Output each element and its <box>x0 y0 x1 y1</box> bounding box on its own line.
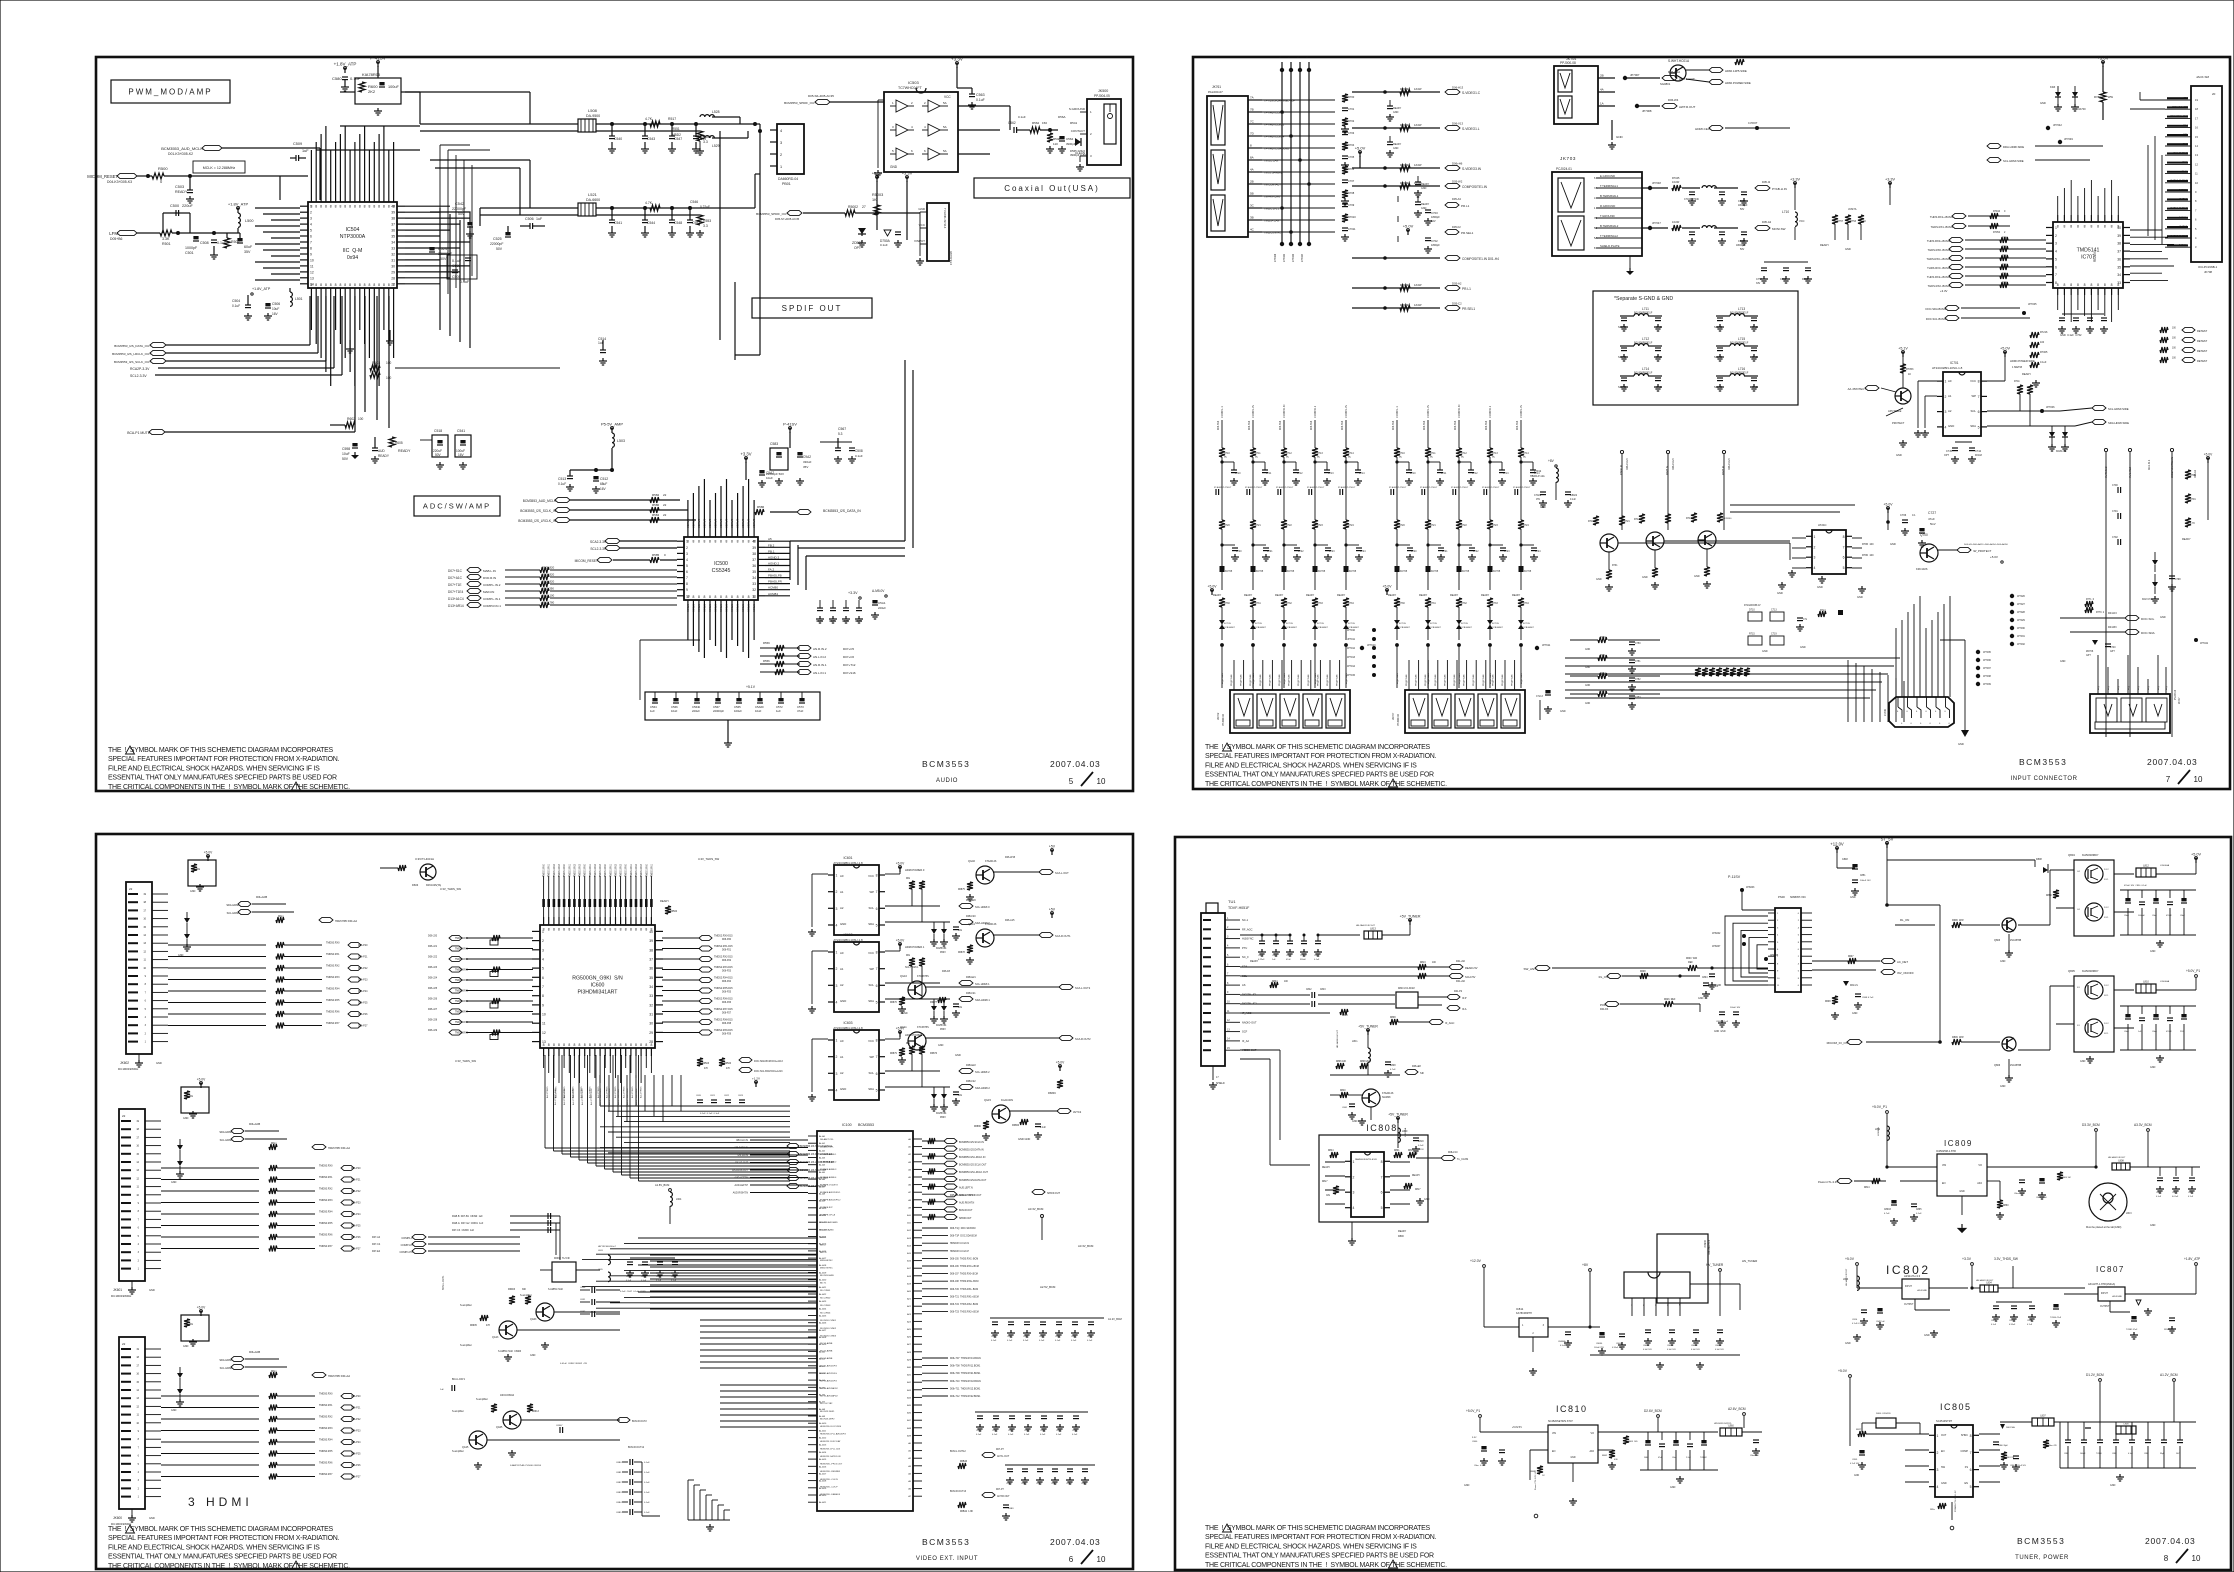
svg-text:10: 10 <box>686 594 690 598</box>
svg-text:GND: GND <box>1585 685 1590 687</box>
svg-text:A1.2V_BCM: A1.2V_BCM <box>1108 1318 1122 1321</box>
svg-text:7: 7 <box>2195 208 2197 212</box>
svg-text:D05-S6+D05-AC35: D05-S6+D05-AC35 <box>808 94 834 98</box>
svg-text:R.GROUND: R.GROUND <box>1600 204 1615 208</box>
capacitor C588/C505 pair <box>447 255 477 284</box>
svg-text:17: 17 <box>1216 1076 1219 1079</box>
svg-text:8: 8 <box>339 205 341 209</box>
svg-text:C512: C512 <box>600 477 608 481</box>
svg-text:3.3: 3.3 <box>703 140 708 144</box>
svg-text:D06-J07 THDS.RX0-.BCM: D06-J07 THDS.RX0-.BCM <box>950 1274 978 1276</box>
svg-text:C714: C714 <box>1359 473 1365 475</box>
svg-text:THE CRITICAL COMPONENTS IN THE: THE CRITICAL COMPONENTS IN THE ! SYMBOL … <box>1205 781 1447 788</box>
svg-text:AN.R.IN.1: AN.R.IN.1 <box>813 663 827 667</box>
svg-text:8: 8 <box>2104 225 2106 229</box>
svg-text:10: 10 <box>2195 181 2198 185</box>
svg-text:8: 8 <box>573 1043 575 1047</box>
svg-text:6: 6 <box>924 149 926 153</box>
svg-text:0.1uF: 0.1uF <box>1040 1127 1046 1129</box>
svg-text:22000pF: 22000pF <box>452 207 467 211</box>
svg-text:BCM9553.I2S.LRCLK.OUT: BCM9553.I2S.LRCLK.OUT <box>959 1171 989 1174</box>
svg-text:R541: R541 <box>1070 121 1078 125</box>
svg-text:1: 1 <box>138 1496 140 1499</box>
capacitor C525 22000pF row B <box>490 226 511 251</box>
svg-text:KCT05: KCT05 <box>1225 571 1233 573</box>
svg-text:MBD2: MBD2 <box>672 133 681 137</box>
svg-text:R724: R724 <box>1523 524 1529 527</box>
svg-text:VDAVS: VDAVS <box>719 519 723 528</box>
svg-text:R751: R751 <box>1600 655 1606 657</box>
svg-text:C544: C544 <box>647 221 655 225</box>
svg-text:35: 35 <box>391 235 395 239</box>
svg-text:D07+S1C: D07+S1C <box>448 569 463 573</box>
svg-text:L716: L716 <box>1738 367 1745 371</box>
svg-text:QG13: QG13 <box>492 1336 499 1339</box>
svg-text:SCF: SCF <box>1242 1030 1248 1034</box>
svg-text:C503: C503 <box>175 185 184 189</box>
svg-text:GND: GND <box>1694 575 1700 578</box>
svg-text:1/10W: 1/10W <box>1414 123 1422 127</box>
wire bus from IC501 bottom pins <box>311 296 393 386</box>
svg-text:A25: A25 <box>907 1328 912 1331</box>
svg-text:GND: GND <box>1948 424 1954 428</box>
svg-text:2007.04.03: 2007.04.03 <box>1050 1537 1101 1547</box>
svg-text:MICOM_RESET: MICOM_RESET <box>575 559 598 563</box>
resistor R552 row B <box>696 215 711 237</box>
svg-text:PR(I)P.CAN: PR(I)P.CAN <box>1230 674 1233 686</box>
svg-text:R790: R790 <box>2190 474 2196 477</box>
svg-text:2: 2 <box>542 939 544 943</box>
svg-text:A7: A7 <box>908 1191 911 1194</box>
svg-text:11: 11 <box>137 1186 140 1189</box>
svg-text:AN.L.IN.2: AN.L.IN.2 <box>813 655 826 659</box>
svg-text:PR(I)P.CAN: PR(I)P.CAN <box>1443 674 1446 686</box>
power +12.0V at IC811 <box>1470 1259 1485 1327</box>
svg-text:R6B42 1.8K: R6B42 1.8K <box>960 1511 973 1513</box>
svg-text:A5: A5 <box>908 1480 911 1483</box>
comp video input tags mid <box>372 1234 520 1253</box>
svg-text:BCM3553_I2S_LRCLK_IN: BCM3553_I2S_LRCLK_IN <box>518 519 556 523</box>
svg-text:SPECIAL FEATURES IMPORTANT FOR: SPECIAL FEATURES IMPORTANT FOR PROTECTIO… <box>108 1535 340 1542</box>
diode D808 at mosfet1 <box>2036 858 2059 898</box>
svg-text:R730: R730 <box>1399 602 1405 605</box>
svg-text:R771 0: R771 0 <box>2086 599 2095 601</box>
svg-text:C703: C703 <box>1431 211 1438 215</box>
svg-text:8: 8 <box>1978 380 1980 384</box>
svg-text:PR.SEL1: PR.SEL1 <box>1461 231 1474 235</box>
svg-text:11: 11 <box>137 1414 140 1417</box>
svg-text:1: 1 <box>1594 206 1596 210</box>
svg-text:8: 8 <box>388 205 390 209</box>
svg-text:R752: R752 <box>1600 673 1606 675</box>
svg-text:IN(I)P.CAN: IN(I)P.CAN <box>1221 673 1224 684</box>
svg-text:SD.CLK.YB2: SD.CLK.YB2 <box>820 1403 833 1405</box>
wire bus left of IC100 <box>650 1255 817 1427</box>
vertical net labels above IC600 <box>544 863 654 877</box>
svg-text:C564: C564 <box>1066 137 1074 141</box>
svg-text:28: 28 <box>649 1040 653 1044</box>
nets AC_DET PAN_ON/OFF right of PS00 <box>1812 956 1914 1019</box>
svg-text:0.1uF: 0.1uF <box>1570 499 1576 501</box>
svg-text:KTC3875S: KTC3875S <box>917 1026 929 1029</box>
svg-text:D06-J25: D06-J25 <box>428 987 438 990</box>
svg-text:D06-H14: D06-H14 <box>1455 420 1457 430</box>
svg-text:B.TERMINAL2: B.TERMINAL2 <box>1600 224 1619 228</box>
svg-text:A1.J2TRG5: A1.J2TRG5 <box>606 1086 609 1098</box>
svg-text:R788: R788 <box>2094 95 2101 99</box>
svg-text:A7: A7 <box>908 1495 911 1498</box>
analog input RC ladder group 2 <box>1383 405 1551 688</box>
svg-text:0.1uF: 0.1uF <box>992 1434 998 1436</box>
svg-text:SCA.L.OUT2: SCA.L.OUT2 <box>1075 986 1091 990</box>
svg-text:KCT05: KCT05 <box>1349 571 1357 573</box>
svg-text:D05+B6: D05+B6 <box>110 237 122 241</box>
svg-text:D07+T1E: D07+T1E <box>448 583 462 587</box>
svg-text:C712: C712 <box>1297 473 1303 475</box>
svg-text:D06+T10 THDS.RXC2.BCM1: D06+T10 THDS.RXC2.BCM1 <box>950 1381 982 1383</box>
svg-text:FT-A302LP-274JLT: FT-A302LP-274JLT <box>1276 486 1294 489</box>
svg-text:D0B-E21: D0B-E21 <box>966 976 976 979</box>
svg-text:3: 3 <box>138 1479 140 1482</box>
svg-text:8: 8 <box>2063 225 2065 229</box>
svg-text:TMDS1.RX3: TMDS1.RX3 <box>559 863 561 877</box>
wire bus HDMI jack to TMDS <box>2130 92 2165 244</box>
svg-text:A2: A2 <box>840 1071 844 1075</box>
svg-text:GND: GND <box>1656 355 1662 359</box>
svg-text:SCL: SCL <box>869 906 875 910</box>
svg-text:L604: L604 <box>676 1198 682 1201</box>
svg-text:R7033: R7033 <box>1400 163 1409 167</box>
svg-text:JP7015: JP7015 <box>1347 674 1356 677</box>
svg-text:8: 8 <box>599 1043 601 1047</box>
svg-text:R708: R708 <box>1348 191 1355 195</box>
svg-text:CCBGM06T: CCBGM06T <box>1224 627 1236 629</box>
svg-text:C709: C709 <box>1348 203 1355 207</box>
svg-text:FT-A302LP-274JLT: FT-A302LP-274JLT <box>1214 486 1232 489</box>
svg-text:36: 36 <box>391 229 395 233</box>
svg-text:AINL1: AINL1 <box>747 604 751 612</box>
ic IC701 eeprom AT24C02BN <box>1914 361 1987 437</box>
svg-text:BCM9553.I2S.SCLK.IN: BCM9553.I2S.SCLK.IN <box>959 1141 984 1144</box>
svg-text:L603: L603 <box>598 1250 603 1252</box>
wire bundle IC501 to filters <box>405 92 760 355</box>
svg-text:JP7032: JP7032 <box>2017 644 2026 646</box>
svg-text:8: 8 <box>692 595 694 599</box>
svg-text:THE ! SYMBOL MARK OF THIS SC: THE ! SYMBOL MARK OF THIS SCHEMETIC DIAG… <box>108 747 334 754</box>
svg-text:S-VIDEO1.L: S-VIDEO1.L <box>1462 127 1480 131</box>
svg-text:A30: A30 <box>907 1366 912 1369</box>
section label box SPDIF OUT <box>752 298 872 318</box>
svg-text:BCM9553.I2S.SCLK.OUT: BCM9553.I2S.SCLK.OUT <box>959 1164 987 1167</box>
svg-text:0: 0 <box>2004 210 2006 213</box>
svg-text:BD.INDX.AXB: BD.INDX.AXB <box>820 1274 834 1277</box>
diagonal jumper ladder bottom middle <box>688 1480 730 1531</box>
svg-text:C685: C685 <box>1071 1336 1077 1338</box>
svg-text:KCT05: KCT05 <box>1286 623 1294 625</box>
inductor L711 ground bridge <box>1618 307 1662 331</box>
svg-text:0.01uF C6902 R6902 470: 0.01uF C6902 R6902 470 <box>560 1363 588 1365</box>
svg-text:2: 2 <box>1814 545 1816 549</box>
svg-text:R7033: R7033 <box>1400 303 1409 307</box>
svg-text:36: 36 <box>649 967 653 971</box>
svg-text:38: 38 <box>752 552 756 556</box>
svg-text:R734: R734 <box>1348 602 1354 605</box>
svg-text:R722: R722 <box>1286 524 1292 527</box>
ic IC803 K1A7805F regulator with bracket <box>1624 1234 1710 1316</box>
warning note text block <box>1205 743 1447 788</box>
svg-text:29: 29 <box>649 1031 653 1035</box>
svg-text:3.3V_THDS_SW: 3.3V_THDS_SW <box>455 1059 476 1063</box>
svg-text:8: 8 <box>635 1043 637 1047</box>
svg-text:D04-K3+D05-K3: D04-K3+D05-K3 <box>107 180 132 184</box>
svg-text:0.1uF 0.1uF 0.1uF: 0.1uF 0.1uF 0.1uF <box>700 1113 720 1115</box>
svg-text:10: 10 <box>136 1194 139 1197</box>
svg-text:D05-A2: D05-A2 <box>1452 282 1462 286</box>
svg-text:GND: GND <box>1421 187 1427 190</box>
svg-text:R6880: R6880 <box>974 1126 981 1128</box>
net HV_TUNER at IC803 <box>1706 1263 1724 1316</box>
svg-text:8: 8 <box>364 283 366 287</box>
svg-text:D50V: D50V <box>940 1029 946 1031</box>
svg-text:R713: R713 <box>1317 452 1323 455</box>
svg-text:4: 4 <box>542 958 544 962</box>
svg-text:8: 8 <box>568 928 570 932</box>
svg-text:R780 100: R780 100 <box>1862 554 1874 557</box>
svg-text:12: 12 <box>136 1405 139 1408</box>
capacitor C502/C503 network <box>200 231 253 259</box>
svg-text:8: 8 <box>2077 283 2079 287</box>
svg-text:0.1uF: 0.1uF <box>644 1502 650 1504</box>
svg-text:8: 8 <box>558 928 560 932</box>
svg-text:BCM.L.OUT12: BCM.L.OUT12 <box>950 1450 966 1453</box>
svg-text:D06+T09 THDS.RX21.BCM1: D06+T09 THDS.RX21.BCM1 <box>950 1373 981 1375</box>
svg-text:C547: C547 <box>674 137 682 141</box>
svg-text:0.1uF: 0.1uF <box>558 482 566 486</box>
svg-text:THDS.RX2+.BCM1: THDS.RX2+.BCM1 <box>1927 275 1951 279</box>
svg-text:C713: C713 <box>1771 609 1777 612</box>
svg-text:8: 8 <box>2070 283 2072 287</box>
svg-text:2: 2 <box>836 890 838 894</box>
svg-text:AS: AS <box>1242 983 1246 987</box>
svg-text:READY: READY <box>1306 594 1315 597</box>
svg-text:C6n: C6n <box>958 930 963 932</box>
svg-text:1: 1 <box>145 1041 147 1044</box>
svg-text:GND: GND <box>1656 385 1662 389</box>
svg-text:18: 18 <box>2195 107 2198 111</box>
svg-text:29: 29 <box>391 270 395 274</box>
analog input RC ladder group 1 <box>1208 405 1377 688</box>
ground under protect <box>1896 440 1907 457</box>
svg-text:R7045: R7045 <box>1672 177 1680 180</box>
svg-text:1K: 1K <box>1863 220 1866 223</box>
svg-text:TMDS1.RX1: TMDS1.RX1 <box>610 863 612 877</box>
svg-text:100: 100 <box>2172 328 2177 330</box>
svg-text:JACK.SM: JACK.SM <box>2196 75 2210 79</box>
svg-text:1/10W: 1/10W <box>1414 283 1422 287</box>
svg-text:8: 8 <box>748 540 750 544</box>
svg-text:R757: R757 <box>1837 220 1844 223</box>
svg-text:C7022: C7022 <box>1534 494 1542 497</box>
svg-text:R500: R500 <box>158 166 168 171</box>
inductor/cap cluster left of IC100 <box>598 1183 682 1293</box>
svg-text:BCM3553_AUD_MCLK: BCM3553_AUD_MCLK <box>161 146 203 151</box>
svg-text:D07+T12: D07+T12 <box>843 663 856 667</box>
svg-text:8: 8 <box>563 928 565 932</box>
svg-text:TM(I)1P.CAN: TM(I)1P.CAN <box>1264 219 1279 223</box>
wire row A upper amp output <box>420 124 760 131</box>
svg-text:33: 33 <box>391 247 395 251</box>
svg-text:6: 6 <box>1069 1555 1074 1564</box>
label P-11SV with jumper <box>1728 875 1775 910</box>
pullup circuit of IC603 <box>885 1027 990 1120</box>
svg-text:GND: GND <box>1896 453 1902 457</box>
svg-text:5: 5 <box>145 1008 147 1011</box>
esd diodes near JK602 <box>178 912 191 957</box>
wire row B lower amp output <box>480 174 760 226</box>
tmds net rows of JK601 <box>161 1165 361 1252</box>
inductor L712 ground bridge <box>1618 337 1662 361</box>
ic IC810 dc-dc converter <box>1466 1404 1640 1505</box>
capacitor C500 220uF <box>163 204 193 233</box>
svg-text:COMP.L.IN: COMP.L.IN <box>1426 405 1430 418</box>
svg-text:7: 7 <box>310 241 312 245</box>
net SW_ANT with resistor <box>1523 958 1768 989</box>
svg-text:D06-H14: D06-H14 <box>1249 420 1251 430</box>
svg-text:8: 8 <box>2077 225 2079 229</box>
svg-text:D06-P24: D06-P24 <box>351 1213 361 1216</box>
svg-text:+5.0V: +5.0V <box>2097 56 2108 61</box>
svg-text:D06-H13: D06-H13 <box>1452 86 1464 90</box>
svg-text:R6849: R6849 <box>1048 1091 1056 1095</box>
svg-text:SD.V2.AVBB: SD.V2.AVBB <box>820 1349 833 1352</box>
svg-text:NTP3000A: NTP3000A <box>340 234 366 240</box>
svg-text:IC602: IC602 <box>843 933 852 937</box>
svg-text:1uF: 1uF <box>536 217 543 221</box>
svg-text:1uF: 1uF <box>776 709 781 713</box>
svg-text:R731: R731 <box>1255 602 1261 605</box>
transistor Q713 buffer 3 <box>1686 513 1732 588</box>
svg-text:15: 15 <box>2195 135 2198 139</box>
svg-text:DC1R019WDH: DC1R019WDH <box>118 1067 138 1071</box>
inductor L812 output <box>2136 853 2201 878</box>
net tags RETEST column <box>2160 327 2208 363</box>
connector PB01 speaker output <box>770 124 804 186</box>
svg-text:14: 14 <box>136 1161 139 1164</box>
svg-text:R584: R584 <box>652 513 660 517</box>
svg-text:8: 8 <box>368 283 370 287</box>
svg-text:D06-T22 THDS.RX2-.BCM: D06-T22 THDS.RX2-.BCM <box>950 1304 978 1306</box>
svg-text:READY: READY <box>1421 203 1430 206</box>
svg-text:JP7028: JP7028 <box>1274 253 1277 262</box>
svg-text:/W_PROTECT: /W_PROTECT <box>1973 549 1992 553</box>
svg-text:8: 8 <box>563 1043 565 1047</box>
svg-text:0.1uF: 0.1uF <box>1040 1434 1046 1436</box>
svg-text:FT-A302LP-274JLT: FT-A302LP-274JLT <box>1245 486 1263 489</box>
svg-text:8: 8 <box>344 205 346 209</box>
svg-text:FILRE AND ELECTRICAL SHOCK HAZ: FILRE AND ELECTRICAL SHOCK HAZARDS. WHEN… <box>1205 762 1417 769</box>
svg-text:R750: R750 <box>1600 637 1606 639</box>
svg-text:6: 6 <box>1926 711 1928 713</box>
svg-text:PPJ000-08: PPJ000-08 <box>1560 61 1576 65</box>
regulator AZ1117H-3.3 <box>1857 1274 1968 1310</box>
svg-text:6: 6 <box>1897 711 1899 713</box>
svg-text:9: 9 <box>2195 190 2197 194</box>
svg-text:NC_F: NC_F <box>1242 955 1249 959</box>
svg-text:3: 3 <box>1814 556 1816 560</box>
net tag BCM3553_SPDIF_OUT 2 <box>756 210 845 221</box>
svg-text:DA-6600: DA-6600 <box>586 198 600 202</box>
svg-text:0.1uF: 0.1uF <box>232 304 240 308</box>
svg-text:37: 37 <box>649 958 653 962</box>
transistor Q803 relay driver 1 <box>1952 918 2022 963</box>
svg-text:SD.CVB01: SD.CVB01 <box>820 1290 831 1292</box>
wire bus RGB to right <box>1618 505 1855 560</box>
svg-text:R6905: R6905 <box>470 1325 477 1327</box>
tuner digital IF nets <box>1240 987 1467 1017</box>
net tag BCM3553_I2S_DATA_IN right <box>755 505 861 515</box>
svg-text:C6A3: C6A3 <box>1051 1482 1057 1485</box>
svg-text:A20: A20 <box>907 1290 912 1293</box>
svg-text:NADIO-OUT: NADIO-OUT <box>1242 1020 1257 1024</box>
svg-text:8: 8 <box>589 928 591 932</box>
svg-text:8: 8 <box>2055 281 2057 285</box>
svg-text:+5.0V: +5.0V <box>197 1306 206 1310</box>
svg-text:+5.1V: +5.1V <box>746 685 756 689</box>
svg-text:THE ! SYMBOL MARK OF THIS SC: THE ! SYMBOL MARK OF THIS SCHEMETIC DIAG… <box>108 1526 334 1533</box>
svg-text:C744: C744 <box>1975 450 1982 453</box>
svg-text:C702: C702 <box>1431 239 1438 243</box>
svg-text:2: 2 <box>836 1055 838 1059</box>
svg-text:A3.3V_BCM: A3.3V_BCM <box>1078 1244 1094 1248</box>
svg-text:GND: GND <box>1393 147 1399 150</box>
svg-text:8: 8 <box>609 1043 611 1047</box>
svg-text:R711: R711 <box>1588 520 1594 523</box>
svg-text:PR(I)P.CAN: PR(I)P.CAN <box>1463 674 1466 686</box>
svg-text:0: 0 <box>1930 723 1932 725</box>
inductor L860 and A2.6V net <box>1714 1407 1762 1457</box>
svg-text:GND 0.1uF C762: GND 0.1uF C762 <box>2060 333 2082 337</box>
svg-text:GND: GND <box>1656 325 1662 329</box>
svg-text:GND: GND <box>1560 710 1566 713</box>
svg-text:PR(I)P.CAN: PR(I)P.CAN <box>1297 674 1300 686</box>
connector JK602 HDMI input <box>118 882 168 1071</box>
cap column C63xx mid <box>580 1287 620 1317</box>
svg-text:15: 15 <box>136 1153 139 1156</box>
svg-text:D06+A22B: D06+A22B <box>249 1351 261 1354</box>
svg-text:GND: GND <box>890 165 898 169</box>
svg-text:KTA2014S: KTA2014S <box>985 923 997 926</box>
svg-text:D06-J29: D06-J29 <box>428 1029 438 1032</box>
svg-text:0.1uF: 0.1uF <box>1056 1434 1062 1436</box>
svg-text:13: 13 <box>310 276 314 280</box>
svg-text:8: 8 <box>138 1210 140 1213</box>
svg-text:TMDS0.RX6: TMDS0.RX6 <box>319 1234 333 1237</box>
svg-text:33: 33 <box>752 582 756 586</box>
svg-text:9: 9 <box>1227 991 1229 994</box>
svg-text:COMP.L.IN: COMP.L.IN <box>1519 405 1523 418</box>
tmds net rows of JK602 <box>168 942 368 1029</box>
svg-text:A1.J2TRG5: A1.J2TRG5 <box>572 1086 575 1098</box>
svg-text:KDZ4.7B: KDZ4.7B <box>2056 450 2066 453</box>
tuner 5V branch with L80x <box>1330 1025 1424 1078</box>
svg-text:D06-T21 THDS.RX1+.BCM: D06-T21 THDS.RX1+.BCM <box>950 1296 979 1298</box>
svg-text:COMP1.P: COMP1.P <box>401 1236 413 1240</box>
svg-text:C501: C501 <box>185 251 194 255</box>
svg-text:8: 8 <box>720 540 722 544</box>
warning note text block <box>1205 1524 1447 1569</box>
svg-text:22: 22 <box>122 1114 126 1118</box>
svg-text:A-M5.0V: A-M5.0V <box>872 589 885 593</box>
